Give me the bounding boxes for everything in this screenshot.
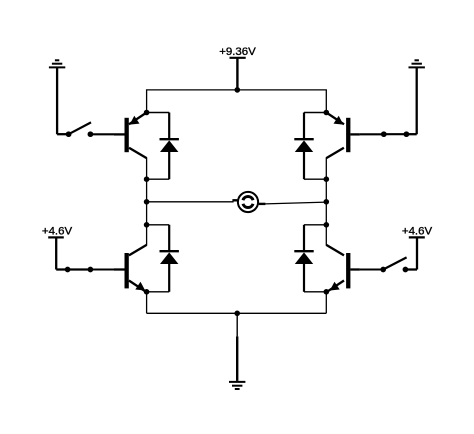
diode D2 (294, 113, 326, 180)
switch S1 (open) (66, 122, 94, 137)
svg-text:+4.6V: +4.6V (402, 226, 433, 238)
svg-text:+9.36V: +9.36V (219, 46, 256, 58)
ground GND1 (top-left, flipped) (49, 60, 69, 134)
switch S3 (closed) (65, 267, 94, 273)
wire S2 to Q2 base (360, 133, 384, 135)
node Q3 emitter (144, 289, 150, 295)
node Q3 collector (144, 222, 150, 228)
power supply terminal +4.6V left (48, 237, 67, 269)
wire right bus lower-mid (325, 202, 327, 225)
net label +9.36V (219, 46, 256, 58)
transistor Q4 (NPN bottom-right) (326, 225, 360, 293)
wire Q4 emitter to bottom rail (325, 292, 327, 314)
wire motor left lead (147, 201, 234, 203)
diode D1 (147, 113, 179, 180)
wire motor right lead (265, 202, 326, 204)
transistor Q1 (PNP top-left) (114, 113, 147, 180)
transistor Q2 (PNP top-right) (326, 113, 360, 180)
ground GND3 (bottom) (229, 336, 245, 389)
node Q2 emitter (324, 110, 330, 116)
node top rail junction (235, 87, 241, 93)
node Q1 emitter (144, 110, 150, 116)
switch S2 (closed) (381, 131, 409, 137)
motor M1 (232, 192, 265, 212)
wire to ground (236, 313, 238, 336)
wire bottom rail (147, 312, 327, 314)
diode D3 (147, 225, 179, 292)
wire Q3 emitter to bottom rail (146, 292, 148, 314)
net label +4.6V right (402, 226, 433, 238)
wire right bus upper-mid (325, 179, 327, 202)
wire top rail (147, 90, 327, 113)
node motor right (324, 199, 330, 205)
switch S4 (open) (380, 257, 408, 272)
node bottom rail junction (234, 311, 240, 317)
power supply terminal VCC +9.36V (230, 58, 246, 90)
node Q4 collector (324, 222, 330, 228)
wire S4 to Q4 base (360, 268, 383, 270)
diode D4 (294, 225, 326, 292)
wire left bus upper-mid (146, 179, 148, 202)
wire S3 to Q3 base (90, 268, 114, 270)
node Q1 collector (144, 176, 150, 182)
net label +4.6V left (42, 226, 73, 238)
node motor left (144, 199, 150, 205)
ground GND2 (top-right, flipped) (406, 60, 425, 134)
node Q2 collector (324, 176, 330, 182)
transistor Q3 (NPN bottom-left) (114, 225, 147, 293)
svg-text:+4.6V: +4.6V (42, 226, 73, 238)
wire S1 to Q1 base (90, 133, 114, 135)
power supply terminal +4.6V right (405, 237, 424, 269)
node Q4 emitter (324, 289, 330, 295)
wire left bus lower-mid (146, 202, 148, 225)
